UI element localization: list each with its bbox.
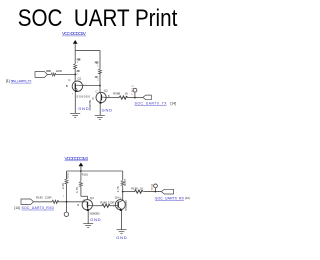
svg-text:Q4: Q4 bbox=[115, 196, 119, 200]
svg-text:Q1: Q1 bbox=[78, 76, 82, 80]
svg-text:[14]: [14] bbox=[15, 206, 20, 210]
svg-text:[14]: [14] bbox=[185, 196, 190, 200]
svg-text:SS8050: SS8050 bbox=[88, 99, 92, 110]
svg-text:[1]: [1] bbox=[6, 79, 10, 83]
svg-text:TP33: TP33 bbox=[150, 183, 154, 190]
svg-text:GND: GND bbox=[116, 235, 127, 240]
svg-text:Q3: Q3 bbox=[90, 196, 94, 200]
svg-text:R186: R186 bbox=[100, 200, 107, 204]
svg-text:R088: R088 bbox=[113, 92, 121, 96]
svg-text:SOC_UART0_RXD: SOC_UART0_RXD bbox=[22, 206, 55, 210]
svg-text:4.7K: 4.7K bbox=[116, 186, 120, 192]
svg-text:VCC-DCDC3V3: VCC-DCDC3V3 bbox=[65, 156, 89, 161]
svg-text:R188: R188 bbox=[131, 186, 138, 190]
svg-text:SS8050: SS8050 bbox=[76, 94, 90, 98]
svg-text:1K: 1K bbox=[140, 186, 144, 190]
svg-text:SS8050: SS8050 bbox=[124, 200, 128, 211]
svg-text:4.7K: 4.7K bbox=[75, 187, 79, 193]
svg-text:120R: 120R bbox=[45, 196, 52, 200]
svg-text:120R: 120R bbox=[108, 200, 115, 204]
svg-text:GND: GND bbox=[102, 107, 113, 112]
svg-text:2.2K: 2.2K bbox=[61, 183, 65, 189]
svg-text:Q2: Q2 bbox=[104, 88, 108, 92]
svg-text:E: E bbox=[92, 97, 94, 101]
svg-text:4.7K: 4.7K bbox=[95, 75, 99, 79]
svg-text:GND: GND bbox=[90, 217, 100, 222]
svg-text:C: C bbox=[83, 199, 85, 203]
svg-text:SB2_UART0_TX: SB2_UART0_TX bbox=[11, 79, 32, 83]
svg-text:SS8050: SS8050 bbox=[90, 211, 100, 215]
svg-text:C: C bbox=[120, 196, 122, 200]
svg-text:R187: R187 bbox=[123, 178, 127, 186]
svg-text:R083: R083 bbox=[95, 61, 99, 65]
svg-text:R182: R182 bbox=[66, 172, 70, 179]
svg-text:B: B bbox=[66, 84, 68, 88]
svg-text:[14]: [14] bbox=[171, 101, 177, 105]
svg-text:R084: R084 bbox=[77, 57, 81, 61]
svg-text:R181: R181 bbox=[82, 173, 89, 177]
svg-text:B: B bbox=[77, 203, 79, 207]
svg-text:R185: R185 bbox=[36, 196, 43, 200]
svg-text:SOC_UART0_TX: SOC_UART0_TX bbox=[135, 101, 168, 105]
svg-text:SOC_UART0_RX: SOC_UART0_RX bbox=[155, 196, 185, 200]
svg-text:1K: 1K bbox=[125, 92, 129, 96]
svg-text:VCC-DCDC5V: VCC-DCDC5V bbox=[62, 31, 87, 36]
svg-text:120R: 120R bbox=[56, 69, 62, 73]
svg-text:TP32: TP32 bbox=[130, 85, 134, 95]
svg-text:SOC UART Print: SOC UART Print bbox=[18, 5, 178, 32]
svg-text:4.7K: 4.7K bbox=[76, 69, 80, 73]
svg-text:R089: R089 bbox=[46, 69, 51, 73]
